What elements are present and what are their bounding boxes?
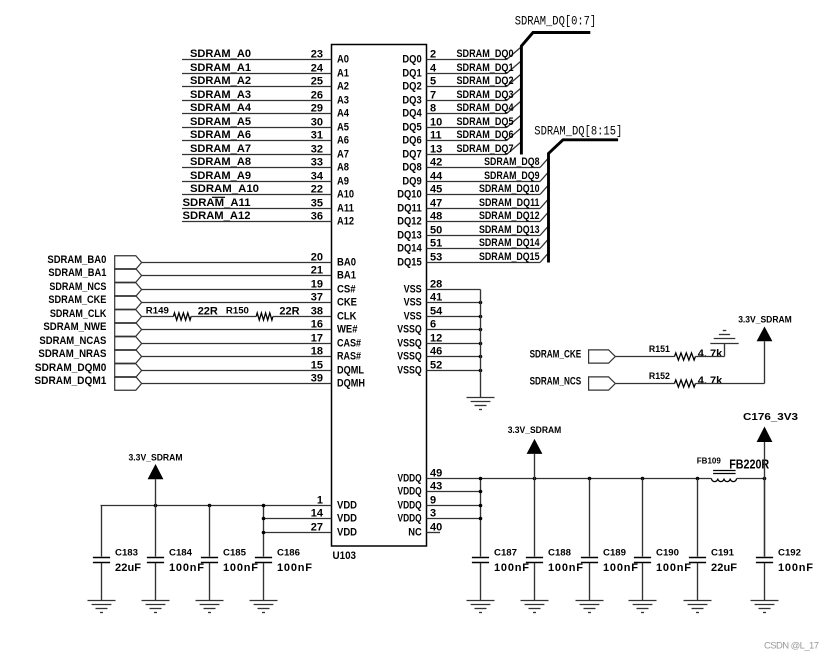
svg-text:26: 26 bbox=[311, 89, 323, 101]
svg-text:C185: C185 bbox=[223, 548, 247, 559]
svg-text:C189: C189 bbox=[603, 548, 626, 559]
svg-text:13: 13 bbox=[430, 143, 442, 155]
svg-text:54: 54 bbox=[430, 305, 443, 317]
svg-text:38: 38 bbox=[311, 305, 323, 317]
svg-text:SDRAM_A4: SDRAM_A4 bbox=[190, 102, 252, 114]
svg-text:BA0: BA0 bbox=[337, 257, 356, 269]
svg-text:SDRAM_DQ9: SDRAM_DQ9 bbox=[484, 170, 539, 182]
svg-text:44: 44 bbox=[430, 170, 443, 182]
svg-text:4: 4 bbox=[430, 62, 437, 74]
svg-text:SDRAM_DQ0: SDRAM_DQ0 bbox=[457, 48, 514, 60]
svg-text:A5: A5 bbox=[337, 122, 349, 134]
svg-text:VDDQ: VDDQ bbox=[398, 473, 423, 485]
svg-text:SDRAM_DQ12: SDRAM_DQ12 bbox=[479, 210, 540, 222]
svg-text:21: 21 bbox=[311, 264, 323, 276]
svg-text:29: 29 bbox=[311, 102, 323, 114]
svg-text:VDDQ: VDDQ bbox=[398, 486, 423, 498]
svg-text:100nF: 100nF bbox=[778, 562, 813, 574]
svg-text:R149: R149 bbox=[146, 306, 169, 316]
svg-text:A9: A9 bbox=[337, 176, 349, 188]
svg-text:SDRAM_A10: SDRAM_A10 bbox=[190, 183, 259, 195]
svg-text:A3: A3 bbox=[337, 95, 349, 107]
svg-text:VDD: VDD bbox=[337, 527, 357, 539]
svg-text:SDRAM_DQ14: SDRAM_DQ14 bbox=[479, 237, 540, 249]
svg-text:DQ6: DQ6 bbox=[402, 135, 421, 147]
svg-text:24: 24 bbox=[311, 62, 324, 74]
svg-text:DQ1: DQ1 bbox=[402, 68, 421, 80]
svg-text:SDRAM_NCS: SDRAM_NCS bbox=[530, 376, 582, 388]
svg-text:C192: C192 bbox=[778, 548, 801, 559]
svg-text:SDRAM_A11: SDRAM_A11 bbox=[183, 197, 251, 209]
svg-text:32: 32 bbox=[311, 143, 323, 155]
svg-text:SDRAM_DQ[8:15]: SDRAM_DQ[8:15] bbox=[534, 125, 622, 139]
svg-text:SDRAM_DQ4: SDRAM_DQ4 bbox=[457, 102, 515, 114]
svg-text:U103: U103 bbox=[333, 550, 357, 562]
svg-text:16: 16 bbox=[311, 318, 323, 330]
svg-text:FB109: FB109 bbox=[697, 456, 721, 466]
svg-text:19: 19 bbox=[311, 278, 323, 290]
svg-text:SDRAM_CKE: SDRAM_CKE bbox=[530, 349, 582, 361]
svg-text:100nF: 100nF bbox=[277, 562, 312, 574]
svg-text:C184: C184 bbox=[169, 548, 193, 559]
svg-text:DQ5: DQ5 bbox=[402, 122, 421, 134]
svg-text:28: 28 bbox=[430, 278, 442, 290]
svg-text:C186: C186 bbox=[277, 548, 300, 559]
svg-text:BA1: BA1 bbox=[337, 270, 356, 282]
svg-text:DQMH: DQMH bbox=[337, 378, 365, 390]
svg-text:40: 40 bbox=[430, 521, 442, 533]
svg-text:SDRAM_DQ2: SDRAM_DQ2 bbox=[457, 75, 514, 87]
svg-text:VDD: VDD bbox=[337, 513, 357, 525]
svg-text:48: 48 bbox=[430, 210, 442, 222]
svg-text:DQ2: DQ2 bbox=[402, 81, 421, 93]
svg-text:22R: 22R bbox=[279, 306, 299, 318]
svg-text:CKE: CKE bbox=[337, 297, 357, 309]
svg-text:51: 51 bbox=[430, 237, 442, 249]
svg-text:9: 9 bbox=[430, 494, 436, 506]
svg-text:C183: C183 bbox=[115, 548, 138, 559]
svg-text:100nF: 100nF bbox=[223, 562, 258, 574]
svg-text:30: 30 bbox=[311, 116, 323, 128]
svg-text:43: 43 bbox=[430, 480, 442, 492]
svg-text:22: 22 bbox=[311, 183, 323, 195]
svg-text:SDRAM_DQ1: SDRAM_DQ1 bbox=[457, 62, 514, 74]
svg-text:C176_3V3: C176_3V3 bbox=[743, 412, 799, 423]
svg-text:39: 39 bbox=[311, 372, 323, 384]
svg-text:R150: R150 bbox=[226, 306, 249, 316]
svg-text:53: 53 bbox=[430, 251, 442, 263]
svg-text:7: 7 bbox=[430, 89, 436, 101]
svg-text:A11: A11 bbox=[337, 203, 354, 215]
svg-text:27: 27 bbox=[311, 521, 323, 533]
svg-text:SDRAM_DQ13: SDRAM_DQ13 bbox=[479, 224, 540, 236]
svg-text:10: 10 bbox=[430, 116, 442, 128]
svg-text:SDRAM_A3: SDRAM_A3 bbox=[190, 89, 251, 101]
svg-text:42: 42 bbox=[430, 156, 442, 168]
svg-text:37: 37 bbox=[311, 291, 323, 303]
svg-text:CSDN @L_17: CSDN @L_17 bbox=[764, 641, 819, 652]
svg-text:100nF: 100nF bbox=[603, 562, 638, 574]
svg-text:22R: 22R bbox=[198, 306, 218, 318]
svg-text:SDRAM_A12: SDRAM_A12 bbox=[183, 210, 251, 222]
svg-text:VSSQ: VSSQ bbox=[397, 351, 422, 363]
svg-text:WE#: WE# bbox=[337, 324, 358, 336]
svg-text:C191: C191 bbox=[711, 548, 735, 559]
svg-text:DQ0: DQ0 bbox=[402, 54, 421, 66]
svg-text:CAS#: CAS# bbox=[337, 338, 361, 350]
svg-text:A6: A6 bbox=[337, 135, 349, 147]
svg-text:3.3V_SDRAM: 3.3V_SDRAM bbox=[508, 425, 562, 436]
svg-text:1: 1 bbox=[317, 494, 323, 506]
svg-text:VDDQ: VDDQ bbox=[398, 500, 423, 512]
svg-text:SDRAM_BA1: SDRAM_BA1 bbox=[48, 267, 106, 279]
svg-text:11: 11 bbox=[430, 129, 442, 141]
svg-text:DQ8: DQ8 bbox=[402, 162, 421, 174]
svg-text:SDRAM_DQ10: SDRAM_DQ10 bbox=[479, 183, 540, 195]
svg-text:SDRAM_CKE: SDRAM_CKE bbox=[48, 294, 106, 306]
svg-text:A1: A1 bbox=[337, 68, 349, 80]
svg-text:100nF: 100nF bbox=[494, 562, 529, 574]
svg-text:3.3V_SDRAM: 3.3V_SDRAM bbox=[738, 315, 792, 326]
svg-text:NC: NC bbox=[408, 527, 422, 539]
svg-text:SDRAM_A7: SDRAM_A7 bbox=[190, 143, 251, 155]
svg-text:VSS: VSS bbox=[404, 311, 422, 323]
svg-text:DQ14: DQ14 bbox=[397, 243, 422, 255]
svg-text:SDRAM_CLK: SDRAM_CLK bbox=[50, 308, 107, 320]
svg-text:33: 33 bbox=[311, 156, 323, 168]
svg-text:SDRAM_DQ15: SDRAM_DQ15 bbox=[479, 251, 540, 263]
svg-text:A8: A8 bbox=[337, 162, 349, 174]
svg-text:22uF: 22uF bbox=[115, 562, 141, 574]
svg-text:VSS: VSS bbox=[404, 284, 422, 296]
svg-text:DQ10: DQ10 bbox=[397, 189, 422, 201]
svg-text:35: 35 bbox=[311, 197, 323, 209]
svg-text:45: 45 bbox=[430, 183, 442, 195]
svg-text:DQ13: DQ13 bbox=[397, 230, 422, 242]
svg-text:12: 12 bbox=[430, 332, 442, 344]
svg-text:100nF: 100nF bbox=[548, 562, 583, 574]
svg-text:DQ4: DQ4 bbox=[402, 108, 422, 120]
svg-text:R152: R152 bbox=[649, 371, 670, 381]
svg-text:2: 2 bbox=[430, 48, 436, 60]
svg-text:DQML: DQML bbox=[337, 365, 364, 377]
svg-text:25: 25 bbox=[311, 75, 323, 87]
svg-text:SDRAM_BA0: SDRAM_BA0 bbox=[47, 254, 106, 266]
svg-text:SDRAM_A9: SDRAM_A9 bbox=[190, 170, 251, 182]
svg-text:34: 34 bbox=[311, 170, 324, 182]
svg-text:SDRAM_DQ5: SDRAM_DQ5 bbox=[457, 116, 514, 128]
svg-text:A7: A7 bbox=[337, 149, 349, 161]
svg-text:DQ9: DQ9 bbox=[402, 176, 421, 188]
svg-text:5: 5 bbox=[430, 75, 436, 87]
svg-text:4. 7k: 4. 7k bbox=[698, 375, 723, 387]
svg-text:A0: A0 bbox=[337, 54, 349, 66]
svg-text:SDRAM_DQM0: SDRAM_DQM0 bbox=[35, 362, 107, 374]
svg-text:31: 31 bbox=[311, 129, 323, 141]
svg-text:VDD: VDD bbox=[337, 500, 357, 512]
svg-text:41: 41 bbox=[430, 291, 442, 303]
svg-text:VSS: VSS bbox=[404, 297, 422, 309]
svg-text:17: 17 bbox=[311, 332, 323, 344]
svg-text:SDRAM_A0: SDRAM_A0 bbox=[190, 48, 251, 60]
svg-text:23: 23 bbox=[311, 48, 323, 60]
svg-text:4. 7k: 4. 7k bbox=[698, 348, 723, 360]
svg-text:SDRAM_DQ11: SDRAM_DQ11 bbox=[479, 197, 540, 209]
svg-text:100nF: 100nF bbox=[656, 562, 691, 574]
svg-text:R151: R151 bbox=[649, 344, 670, 354]
svg-text:VSSQ: VSSQ bbox=[397, 324, 422, 336]
svg-text:22uF: 22uF bbox=[711, 562, 737, 574]
svg-text:SDRAM_NWE: SDRAM_NWE bbox=[43, 321, 106, 333]
svg-text:3: 3 bbox=[430, 507, 436, 519]
svg-text:52: 52 bbox=[430, 359, 442, 371]
svg-text:36: 36 bbox=[311, 210, 323, 222]
svg-text:47: 47 bbox=[430, 197, 442, 209]
svg-text:SDRAM_A8: SDRAM_A8 bbox=[190, 156, 251, 168]
svg-text:SDRAM_DQ[0:7]: SDRAM_DQ[0:7] bbox=[515, 15, 597, 29]
svg-text:FB220R: FB220R bbox=[729, 457, 769, 472]
svg-text:3.3V_SDRAM: 3.3V_SDRAM bbox=[129, 453, 183, 464]
svg-text:A12: A12 bbox=[337, 216, 354, 228]
svg-text:SDRAM_A5: SDRAM_A5 bbox=[190, 116, 251, 128]
svg-text:DQ12: DQ12 bbox=[397, 216, 422, 228]
svg-text:DQ11: DQ11 bbox=[397, 203, 422, 215]
svg-text:49: 49 bbox=[430, 467, 442, 479]
svg-text:SDRAM_DQ7: SDRAM_DQ7 bbox=[457, 143, 514, 155]
svg-text:C190: C190 bbox=[656, 548, 679, 559]
svg-text:DQ7: DQ7 bbox=[402, 149, 421, 161]
svg-text:RAS#: RAS# bbox=[337, 351, 361, 363]
svg-text:DQ3: DQ3 bbox=[402, 95, 421, 107]
svg-text:VSSQ: VSSQ bbox=[397, 365, 422, 377]
svg-text:20: 20 bbox=[311, 251, 323, 263]
svg-text:15: 15 bbox=[311, 359, 323, 371]
svg-text:DQ15: DQ15 bbox=[397, 257, 422, 269]
svg-text:SDRAM_NCAS: SDRAM_NCAS bbox=[39, 335, 106, 347]
svg-text:CS#: CS# bbox=[337, 284, 356, 296]
svg-text:A4: A4 bbox=[337, 108, 350, 120]
svg-text:50: 50 bbox=[430, 224, 442, 236]
svg-text:18: 18 bbox=[311, 345, 323, 357]
svg-text:46: 46 bbox=[430, 345, 442, 357]
svg-text:SDRAM_DQ8: SDRAM_DQ8 bbox=[484, 156, 539, 168]
svg-text:A2: A2 bbox=[337, 81, 349, 93]
svg-text:C188: C188 bbox=[548, 548, 571, 559]
svg-text:SDRAM_DQ6: SDRAM_DQ6 bbox=[457, 129, 514, 141]
svg-text:SDRAM_A2: SDRAM_A2 bbox=[190, 75, 251, 87]
svg-text:SDRAM_A1: SDRAM_A1 bbox=[190, 62, 251, 74]
svg-text:C187: C187 bbox=[494, 548, 517, 559]
svg-text:SDRAM_A6: SDRAM_A6 bbox=[190, 129, 251, 141]
svg-text:SDRAM_DQ3: SDRAM_DQ3 bbox=[457, 89, 514, 101]
svg-text:8: 8 bbox=[430, 102, 436, 114]
svg-text:CLK: CLK bbox=[337, 311, 357, 323]
svg-text:SDRAM_DQM1: SDRAM_DQM1 bbox=[34, 375, 106, 387]
svg-text:SDRAM_NCS: SDRAM_NCS bbox=[49, 281, 106, 293]
svg-text:100nF: 100nF bbox=[169, 562, 204, 574]
svg-text:SDRAM_NRAS: SDRAM_NRAS bbox=[38, 348, 106, 360]
svg-text:14: 14 bbox=[311, 507, 324, 519]
svg-text:VDDQ: VDDQ bbox=[398, 513, 423, 525]
svg-text:VSSQ: VSSQ bbox=[397, 338, 422, 350]
svg-text:A10: A10 bbox=[337, 189, 354, 201]
svg-text:6: 6 bbox=[430, 318, 436, 330]
